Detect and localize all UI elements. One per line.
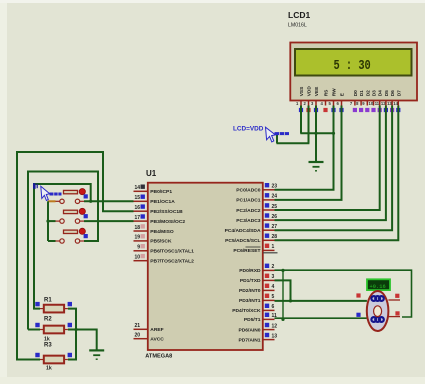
LCD pin 2 VDD bbox=[304, 86, 313, 112]
wire R1 right down bbox=[68, 309, 76, 330]
svg-text:5 : 30: 5 : 30 bbox=[334, 57, 371, 73]
svg-text:D2: D2 bbox=[365, 90, 371, 96]
U1 pin 17 PB3/MOSI/OC2 bbox=[134, 214, 186, 225]
svg-text:PD6/AIN0: PD6/AIN0 bbox=[238, 327, 260, 333]
svg-text:10: 10 bbox=[369, 101, 374, 106]
svg-text:RW: RW bbox=[332, 88, 338, 96]
LCD pin 5 RW bbox=[329, 88, 338, 112]
svg-text:14: 14 bbox=[393, 101, 398, 106]
svg-text:PD7/AIN1: PD7/AIN1 bbox=[238, 337, 260, 343]
U1 pin 20 AVCC bbox=[134, 333, 165, 343]
wire PD3 to motor left top bbox=[275, 300, 367, 302]
svg-text:12: 12 bbox=[381, 101, 386, 106]
svg-text:9: 9 bbox=[137, 245, 140, 251]
svg-text:PB7/TOSC2/XTAL2: PB7/TOSC2/XTAL2 bbox=[150, 259, 194, 265]
svg-text:PD2/INT0: PD2/INT0 bbox=[239, 288, 261, 294]
svg-text:13: 13 bbox=[387, 101, 392, 106]
svg-text:PD3/INT1: PD3/INT1 bbox=[239, 298, 261, 304]
LCD pin 8 D1 bbox=[356, 90, 365, 112]
wire LCD D5 to MCU bbox=[275, 106, 386, 221]
U1 pin 3 PD1/TXD bbox=[240, 274, 275, 285]
svg-text:VDD: VDD bbox=[307, 86, 313, 97]
junction rail button2 bbox=[46, 220, 49, 223]
svg-text:PC6/RESET: PC6/RESET bbox=[233, 248, 260, 254]
svg-text:PB1/OC1A: PB1/OC1A bbox=[150, 199, 175, 205]
svg-text:D1: D1 bbox=[359, 90, 365, 96]
svg-text:10: 10 bbox=[134, 255, 140, 261]
overline RESET bbox=[246, 246, 261, 248]
svg-text:18: 18 bbox=[134, 225, 140, 231]
U1 ATmega8 body bbox=[148, 183, 263, 350]
svg-text:PB5/SCK: PB5/SCK bbox=[150, 239, 172, 245]
U1 pin 15 PB1/OC1A bbox=[134, 195, 176, 206]
svg-text:PC0/ADC0: PC0/ADC0 bbox=[236, 188, 260, 194]
blue mark top-left bbox=[33, 183, 36, 189]
svg-text:PC2/ADC2: PC2/ADC2 bbox=[236, 208, 260, 214]
svg-text:5: 5 bbox=[272, 294, 275, 300]
U1 pin 25 PC2/ADC2 bbox=[236, 203, 277, 214]
U1 pin 24 PC1/ADC1 bbox=[236, 193, 277, 204]
svg-text:PD5/T1: PD5/T1 bbox=[244, 317, 261, 323]
resistor R2 bbox=[35, 323, 72, 334]
U1 pin1 reset line bbox=[263, 252, 278, 254]
wire VDD horizontal bbox=[277, 142, 310, 144]
svg-text:R3: R3 bbox=[44, 343, 52, 349]
svg-text:6: 6 bbox=[272, 304, 275, 310]
svg-text:11: 11 bbox=[375, 101, 380, 106]
svg-text:13: 13 bbox=[272, 333, 278, 339]
svg-text:27: 27 bbox=[272, 224, 278, 230]
svg-text:25: 25 bbox=[272, 204, 278, 210]
wire LCD D4 to MCU bbox=[275, 106, 380, 211]
selected wire dashes at button1 bbox=[50, 193, 62, 196]
svg-text:21: 21 bbox=[134, 323, 140, 329]
wire button1 to PB1 bbox=[84, 200, 134, 202]
svg-text:1: 1 bbox=[272, 244, 275, 250]
button SW1 bbox=[55, 189, 88, 204]
svg-text:LCD1: LCD1 bbox=[288, 10, 310, 20]
U1 pin 21 AREF bbox=[134, 323, 164, 333]
svg-text:PD4/T0/XCK: PD4/T0/XCK bbox=[232, 308, 261, 314]
U1 pin 4 PD2/INT0 bbox=[239, 284, 274, 295]
svg-text:15: 15 bbox=[134, 195, 140, 201]
U1 pin 12 PD6/AIN0 bbox=[238, 323, 277, 334]
U1 pin 2 PD0/RXD bbox=[239, 264, 274, 275]
wire rail vertical bbox=[47, 201, 49, 241]
LCD pin 6 E bbox=[337, 92, 346, 112]
LCD pin 7 D0 bbox=[350, 90, 359, 112]
cursor arrow at LCD=VDD bbox=[266, 127, 276, 142]
LCD pin 14 D7 bbox=[393, 90, 402, 112]
U1 pin 11 PD5/T1 bbox=[244, 313, 277, 324]
svg-text:PB0/ICP1: PB0/ICP1 bbox=[150, 189, 172, 195]
svg-text:U1: U1 bbox=[146, 169, 157, 178]
LCD pin 13 D6 bbox=[387, 90, 396, 112]
svg-text:12: 12 bbox=[272, 323, 278, 329]
U1 pin 19 PB5/SCK bbox=[134, 234, 172, 245]
svg-text:PD0/RXD: PD0/RXD bbox=[239, 268, 261, 274]
svg-text:4: 4 bbox=[272, 284, 275, 290]
svg-text:D3: D3 bbox=[372, 90, 378, 96]
selected wire (blue dashes) bbox=[275, 132, 290, 135]
button SW2 bbox=[55, 208, 88, 223]
wire VSS-VEE-RW bus bbox=[300, 132, 334, 134]
svg-text:PB4/MISO: PB4/MISO bbox=[150, 229, 174, 235]
svg-text:PC3/ADC3: PC3/ADC3 bbox=[236, 218, 260, 224]
wire PD1 jog bbox=[275, 280, 291, 301]
wire R2 left bbox=[28, 329, 40, 331]
junction PD5 bbox=[281, 318, 284, 321]
wire VDD down bbox=[308, 106, 310, 144]
svg-text:28: 28 bbox=[272, 234, 278, 240]
button SW3 bbox=[55, 228, 88, 243]
U1 pin 14 PB0/ICP1 bbox=[134, 185, 173, 196]
wire VEE down to ground bbox=[315, 106, 317, 162]
wire rail to button3 bbox=[48, 240, 56, 242]
wire R2 right to ground bbox=[68, 330, 97, 350]
wire rail to button2 bbox=[48, 220, 56, 222]
svg-text:R2: R2 bbox=[44, 317, 52, 323]
U1 pin 16 PB2/SS/OC1B bbox=[134, 204, 184, 215]
wire button3 right bbox=[28, 172, 98, 330]
svg-text:14: 14 bbox=[134, 185, 140, 191]
svg-text:LCD=VDD: LCD=VDD bbox=[233, 126, 264, 133]
resistor R3 bbox=[35, 353, 72, 364]
ground (LCD) bbox=[309, 162, 324, 171]
junction PD0 bbox=[281, 269, 284, 272]
U1 pin 26 PC3/ADC3 bbox=[236, 213, 277, 224]
LCD pin 10 D3 bbox=[369, 90, 378, 112]
U1 pin 28 PC5/ADC5/SCL bbox=[225, 234, 277, 245]
svg-text:D6: D6 bbox=[390, 90, 396, 96]
svg-text:LM016L: LM016L bbox=[288, 23, 307, 29]
LCD pin 3 VEE bbox=[311, 86, 320, 112]
svg-text:3: 3 bbox=[272, 274, 275, 280]
svg-text:2: 2 bbox=[272, 264, 275, 270]
wire PD0 to motor right bbox=[275, 270, 412, 317]
U1 pin 1 PC6/RESET bbox=[233, 244, 274, 255]
wire VSS down bbox=[300, 106, 302, 134]
svg-text:VSS: VSS bbox=[299, 86, 305, 96]
U1 pin 5 PD3/INT1 bbox=[239, 294, 274, 305]
U1 pin 27 PC4/ADC4/SDA bbox=[225, 223, 278, 234]
svg-text:+0.16: +0.16 bbox=[370, 284, 386, 290]
svg-text:20: 20 bbox=[134, 333, 140, 339]
wire net R1 bbox=[34, 184, 91, 309]
svg-text:PC1/ADC1: PC1/ADC1 bbox=[236, 198, 260, 204]
resistor R1 bbox=[35, 302, 72, 313]
wire R3 right up bbox=[68, 330, 76, 360]
LCD pin 9 D2 bbox=[362, 90, 371, 112]
U1 pin 23 PC0/ADC0 bbox=[236, 183, 277, 194]
svg-text:16: 16 bbox=[134, 205, 140, 211]
svg-text:ATMEGA8: ATMEGA8 bbox=[145, 354, 172, 360]
LCD pin 12 D5 bbox=[381, 90, 390, 112]
svg-text:1k: 1k bbox=[46, 366, 52, 372]
junction R common bbox=[74, 328, 77, 331]
svg-text:24: 24 bbox=[272, 194, 278, 200]
junction RW bus bbox=[332, 132, 335, 135]
svg-text:AVCC: AVCC bbox=[150, 337, 164, 343]
wire VDD up stub bbox=[276, 134, 278, 144]
stepper motor MOTOR1 bbox=[367, 291, 400, 331]
ground (resistors) bbox=[89, 350, 104, 359]
U1 pin 18 PB4/MISO bbox=[134, 224, 174, 235]
junction net R1 bbox=[89, 200, 92, 203]
svg-text:26: 26 bbox=[272, 214, 278, 220]
svg-text:PC4/ADC4/SDA: PC4/ADC4/SDA bbox=[225, 228, 261, 234]
LCD pin 1 VSS bbox=[296, 86, 305, 112]
wire PD5 to motor left bottom bbox=[275, 317, 367, 319]
svg-text:23: 23 bbox=[272, 184, 278, 190]
U1 pin 13 PD7/AIN1 bbox=[238, 333, 277, 344]
wire net PB2 bbox=[17, 152, 134, 360]
U1 pin 9 PB6/TOSC1/XTAL1 bbox=[134, 244, 195, 255]
svg-text:R1: R1 bbox=[44, 298, 52, 304]
svg-text:D4: D4 bbox=[378, 90, 384, 96]
svg-text:PD1/TXD: PD1/TXD bbox=[240, 278, 261, 284]
svg-text:D0: D0 bbox=[353, 90, 359, 96]
svg-text:19: 19 bbox=[134, 235, 140, 241]
svg-text:PC5/ADC5/SCL: PC5/ADC5/SCL bbox=[225, 238, 260, 244]
LCD LM016L body bbox=[290, 43, 417, 101]
svg-text:PB2/SS/OC1B: PB2/SS/OC1B bbox=[150, 209, 183, 215]
junction VEE bus bbox=[314, 132, 317, 135]
wire LCD D7 to MCU bbox=[275, 106, 399, 241]
svg-text:AREF: AREF bbox=[150, 327, 163, 333]
svg-text:17: 17 bbox=[134, 215, 140, 221]
LCD screen bbox=[295, 49, 412, 76]
cursor arrow at buttons bbox=[41, 186, 50, 200]
LCD pin 11 D4 bbox=[375, 90, 384, 112]
wire button2 to PB3 bbox=[84, 220, 134, 222]
wire RW to PC0 bbox=[275, 106, 334, 190]
motor pin state marks bbox=[356, 293, 360, 297]
svg-text:PB6/TOSC1/XTAL1: PB6/TOSC1/XTAL1 bbox=[150, 249, 194, 255]
LCD pin 4 RS bbox=[321, 89, 330, 112]
wire LCD D6 to MCU bbox=[275, 106, 393, 231]
svg-text:D7: D7 bbox=[396, 90, 402, 96]
motor RPM readout bbox=[367, 279, 390, 290]
U1 pin 10 PB7/TOSC2/XTAL2 bbox=[134, 254, 195, 265]
wire LCD E to MCU bbox=[275, 106, 342, 200]
svg-text:D5: D5 bbox=[384, 90, 390, 96]
wire vertical PD0-PD5 bbox=[282, 270, 284, 318]
svg-text:RS: RS bbox=[324, 89, 330, 96]
svg-text:PB3/MOSI/OC2: PB3/MOSI/OC2 bbox=[150, 219, 185, 225]
svg-text:VEE: VEE bbox=[314, 86, 320, 96]
wire buttons left rail bbox=[48, 200, 56, 202]
junction PD1-PD3 bbox=[289, 299, 292, 302]
U1 pin 6 PD4/T0/XCK bbox=[232, 304, 274, 315]
